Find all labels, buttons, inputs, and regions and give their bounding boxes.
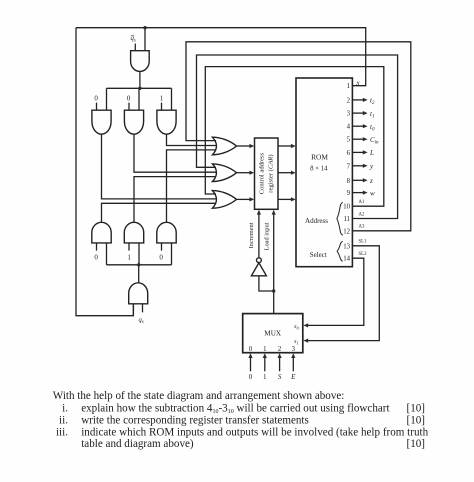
- arrowhead MUX input 3: [291, 353, 295, 358]
- svg-text:12: 12: [343, 228, 350, 235]
- svg-text:8 × 14: 8 × 14: [310, 166, 328, 173]
- svg-text:1: 1: [263, 373, 267, 381]
- wire row2 gate A2c output to OR1 bottom input: [167, 150, 217, 222]
- svg-text:0: 0: [94, 254, 98, 262]
- node junction on top rail at U1 right input: [143, 26, 146, 29]
- wire MUX data input 3 stub (E): [292, 357, 294, 371]
- wire Load input line: MUX output up to CAR: [273, 213, 275, 313]
- wire row1 gate A1b left input stub: [128, 103, 130, 111]
- svg-text:13: 13: [343, 243, 350, 250]
- inverter U8 triangle (points up, into Increment): [251, 263, 266, 276]
- svg-text:t2: t2: [370, 97, 375, 107]
- svg-text:indicate which ROM inputs and: indicate which ROM inputs and outputs wi…: [81, 426, 428, 438]
- wire inverter input from load line junction: [259, 276, 274, 291]
- svg-text:0: 0: [159, 254, 163, 262]
- wire OR1 output to CAR: [236, 145, 250, 147]
- wire ROM pin 6 output L: [352, 151, 363, 153]
- svg-text:9: 9: [347, 190, 351, 197]
- and-gate A2c (row2 right, constant 0, points up): [157, 222, 176, 243]
- brace Select pins 13-14: [337, 241, 343, 261]
- svg-text:14: 14: [343, 256, 350, 263]
- svg-text:qs: qs: [139, 317, 144, 325]
- arrowhead ROM pin7 y: [363, 164, 368, 168]
- svg-text:0: 0: [127, 95, 131, 103]
- wire net A2: ROM pin 11 right, up, across, down to OR2 top input: [197, 55, 398, 219]
- svg-text:A2: A2: [359, 212, 365, 217]
- wire row1 gate A1a right input: [106, 88, 108, 110]
- wire OR3 output to CAR: [236, 198, 250, 200]
- wire row1 gate A1c left input stub: [161, 103, 163, 111]
- and-gate U1 (top, qs-bar enable, points down): [131, 51, 150, 72]
- svg-text:With the help of the state dia: With the help of the state diagram and a…: [53, 390, 345, 402]
- wire CAR output bit3 to ROM: [278, 198, 292, 200]
- wire ROM pin 4 output t0: [352, 125, 363, 127]
- wire row2 gate A2a right input to rail 2: [106, 243, 108, 265]
- svg-text:[10]: [10]: [407, 402, 425, 414]
- arrowhead ROM pin5 Cin: [363, 137, 368, 141]
- svg-text:s1: s1: [294, 339, 299, 345]
- or-gate O1 (top): [212, 137, 236, 155]
- arrowhead OR3 to CAR: [249, 197, 254, 201]
- svg-text:[10]: [10]: [407, 414, 425, 426]
- arrowhead ROM pin4 t0: [363, 124, 368, 128]
- or-gate O3 (bottom): [212, 191, 236, 209]
- svg-text:SL2: SL2: [359, 252, 368, 257]
- wire CAR output bit2 to ROM: [278, 172, 292, 174]
- wire row1 gate A1c output to OR1 middle input: [167, 134, 217, 145]
- and-gate U7 (bottom, qs enable, points up): [129, 283, 148, 304]
- svg-text:SL1: SL1: [359, 239, 368, 244]
- and-gate A1c (row1 right, constant 1, points down): [157, 110, 176, 134]
- svg-text:explain how the subtraction 41: explain how the subtraction 410-310 will…: [81, 402, 390, 415]
- svg-text:Select: Select: [310, 251, 327, 259]
- wire gate U1 right input from top rail: [144, 28, 146, 51]
- arrowhead SL1 into MUX s1: [303, 339, 308, 343]
- wire row2 gate A2a output to OR3 bottom input: [102, 203, 217, 222]
- brace Address pins 10-12: [337, 202, 343, 235]
- arrowhead OR2 to CAR: [249, 171, 254, 175]
- svg-text:Control address: Control address: [259, 152, 266, 194]
- svg-text:5: 5: [347, 137, 351, 144]
- svg-text:z: z: [369, 177, 373, 185]
- arrowhead OR1 to CAR: [249, 144, 254, 148]
- wire row1 gate A1a left input stub: [96, 103, 98, 111]
- and-gate A1b (row1 middle, constant 0, points down): [124, 110, 143, 134]
- svg-text:t1: t1: [370, 110, 374, 120]
- node junction Load line / inverter branch: [272, 289, 275, 292]
- wire ROM pin 9 output w: [352, 192, 363, 194]
- wire gate U1 output to rail 1: [139, 72, 141, 89]
- wire ROM pin 7 output y: [352, 165, 363, 167]
- node junction rail 2 / U7 output: [137, 263, 140, 266]
- arrowhead CAR bit3 to ROM: [291, 197, 296, 201]
- wire row1 gate A1b output to OR2 middle input: [134, 134, 216, 172]
- svg-text:w: w: [370, 189, 375, 197]
- wire rail 2 junction to gate U7 output: [138, 265, 140, 283]
- wire CAR output bit1 to ROM: [278, 145, 292, 147]
- svg-text:ROM: ROM: [311, 153, 328, 162]
- wire MUX data input 2 stub (S): [279, 357, 281, 371]
- svg-text:1: 1: [263, 346, 266, 353]
- arrowhead MUX input 1: [263, 353, 267, 358]
- wire net SL2: ROM pin 14 to MUX select s0: [308, 258, 364, 325]
- svg-text:1: 1: [347, 83, 350, 90]
- wire net A1: ROM pin 10 right, up, across, down to OR3 top input: [205, 67, 383, 207]
- wire Increment input to CAR (from inverter bubble): [258, 213, 260, 257]
- and-gate A2a (row2 left, constant 0, points up): [92, 222, 111, 243]
- memory ROM box: [296, 78, 352, 267]
- svg-text:i.: i.: [62, 402, 68, 414]
- wire rail 1 (top AND row common input): [107, 87, 172, 89]
- svg-text:11: 11: [343, 216, 350, 223]
- svg-text:1: 1: [160, 95, 164, 103]
- wire ROM pin 3 output t1: [352, 112, 363, 114]
- arrowhead ROM pin2 t2: [363, 98, 368, 102]
- arrowhead SL2 into MUX s0: [303, 323, 308, 327]
- arrowhead ROM pin3 t1: [363, 111, 368, 115]
- wire ROM pin 5 output Cin: [352, 138, 363, 140]
- svg-text:3: 3: [347, 111, 351, 118]
- wire rail 2 (bottom AND row common input): [107, 264, 172, 266]
- wire row2 gate A2a left input stub: [96, 243, 98, 251]
- wire row2 gate A2b left input stub: [128, 243, 130, 251]
- svg-text:4: 4: [347, 124, 351, 131]
- arrowhead Load input into CAR: [272, 210, 276, 215]
- svg-text:S: S: [278, 373, 282, 381]
- svg-text:q̅s: q̅s: [130, 35, 136, 43]
- wire ROM pin 2 output t2: [352, 99, 363, 101]
- wire x feedback: ROM pin 1 right, up, along top rail to left border: [76, 28, 366, 86]
- svg-text:y: y: [369, 163, 374, 171]
- svg-text:A1: A1: [359, 200, 365, 205]
- arrowhead ROM pin6 L: [363, 150, 368, 154]
- svg-text:6: 6: [347, 150, 351, 157]
- svg-text:write the corresponding regist: write the corresponding register transfe…: [81, 414, 309, 426]
- or-gate O2 (middle): [212, 164, 236, 182]
- svg-text:0: 0: [94, 95, 98, 103]
- svg-text:E: E: [290, 373, 296, 381]
- svg-text:Cin: Cin: [370, 136, 379, 146]
- svg-text:3: 3: [292, 346, 296, 353]
- node junction rail 1 / U1 output: [138, 87, 141, 90]
- wire gate U1 left input stub (qs-bar): [134, 44, 136, 51]
- svg-text:register (CAR): register (CAR): [267, 154, 274, 192]
- svg-text:MUX: MUX: [264, 330, 282, 338]
- svg-text:0: 0: [249, 346, 253, 353]
- arrowhead Increment into CAR: [257, 210, 261, 215]
- svg-text:t0: t0: [370, 123, 375, 133]
- wire OR2 output to CAR: [236, 172, 250, 174]
- arrowhead ROM pin8 z: [363, 178, 368, 182]
- svg-text:[10]: [10]: [407, 438, 425, 450]
- svg-text:s0: s0: [294, 324, 299, 330]
- wire left border down to bottom AND gate left input: [76, 28, 133, 316]
- mux MUX box: [243, 314, 303, 353]
- svg-text:A3: A3: [359, 225, 365, 230]
- arrowhead CAR bit1 to ROM: [291, 144, 296, 148]
- svg-text:10: 10: [343, 204, 350, 211]
- inverter U8 bubble: [257, 258, 262, 263]
- wire MUX data input 0 stub: [250, 357, 252, 371]
- svg-text:8: 8: [347, 178, 351, 185]
- wire ROM pin 8 output z: [352, 179, 363, 181]
- wire row1 gate A1a output to OR3 middle input: [102, 134, 217, 199]
- wire gate U7 left input stub from border feedback: [132, 304, 134, 316]
- svg-text:2: 2: [347, 97, 351, 104]
- arrowhead CAR bit2 to ROM: [291, 171, 296, 175]
- svg-text:2: 2: [278, 346, 282, 353]
- svg-text:0: 0: [249, 373, 253, 381]
- arrowhead MUX input 0: [248, 353, 252, 358]
- svg-text:1: 1: [127, 254, 131, 262]
- svg-text:7: 7: [347, 163, 351, 170]
- wire row2 gate A2b right input to rail 2: [138, 243, 140, 265]
- svg-text:L: L: [369, 149, 374, 157]
- arrowhead MUX input 2: [278, 353, 282, 358]
- and-gate A2b (row2 middle, constant 1, points up): [124, 222, 143, 243]
- svg-text:ii.: ii.: [59, 414, 68, 426]
- svg-text:table and diagram above): table and diagram above): [81, 438, 194, 450]
- arrowhead ROM pin9 w: [363, 191, 368, 195]
- wire row2 gate A2b output to OR2 bottom input: [134, 177, 216, 223]
- register CAR box: [255, 138, 279, 209]
- wire row2 gate A2c right input to rail 2: [171, 243, 173, 265]
- wire row1 gate A1c right input: [171, 88, 173, 110]
- svg-text:iii.: iii.: [56, 426, 68, 438]
- wire row2 gate A2c left input stub: [161, 243, 163, 251]
- wire net SL1: ROM pin 13 to MUX select s1: [308, 246, 380, 341]
- wire row1 gate A1b right input: [138, 88, 140, 110]
- svg-text:Address: Address: [305, 217, 328, 225]
- and-gate A1a (row1 left, constant 0, points down): [92, 110, 111, 134]
- wire gate U7 right input stub (qs): [142, 304, 144, 313]
- svg-text:Increment: Increment: [248, 222, 255, 248]
- wire net A3: ROM pin 12 right, up, across top, down to OR1 top input: [186, 42, 411, 231]
- wire MUX data input 1 stub: [264, 357, 266, 371]
- svg-text:Load input: Load input: [263, 222, 270, 250]
